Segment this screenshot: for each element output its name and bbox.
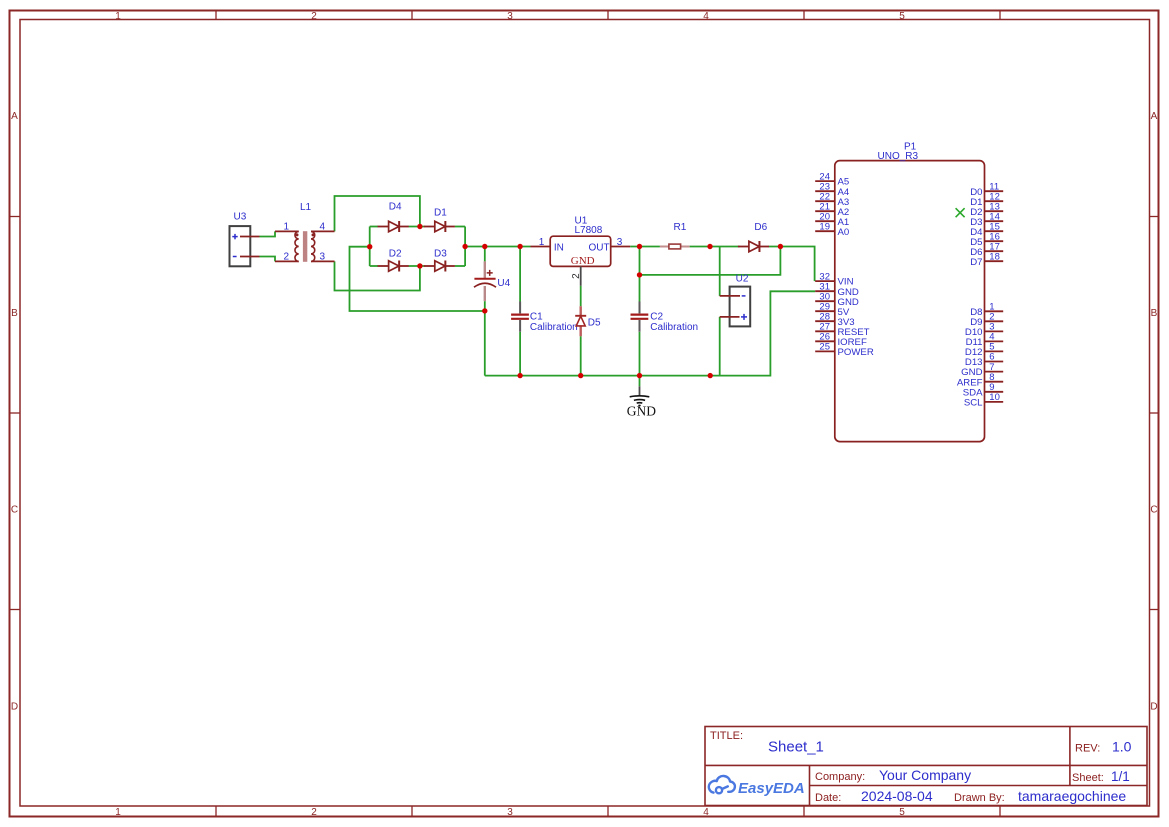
wire U1 OUT to R1 — [630, 246, 660, 248]
P1 pin 4 D11 — [985, 340, 1004, 342]
wire D2-D3 node bottom — [409, 265, 425, 267]
P1 pin 14 D3 — [985, 220, 1004, 222]
diode D5 — [580, 306, 582, 336]
svg-text:Drawn By:: Drawn By: — [954, 792, 1005, 804]
wire U3 plus to L1 pin1 — [260, 231, 276, 236]
P1 pin 1 D8 — [985, 310, 1004, 312]
diode D1 — [424, 226, 435, 228]
svg-text:2024-08-04: 2024-08-04 — [861, 788, 933, 804]
P1 pin 2 D9 — [985, 320, 1004, 322]
svg-text:C1: C1 — [530, 311, 543, 322]
svg-text:D3: D3 — [434, 248, 447, 259]
P1 pin 23 A4 — [815, 190, 835, 192]
wire U2 plus down to ground rail — [719, 317, 721, 376]
junction bridge DC plus — [462, 244, 467, 249]
svg-text:D7: D7 — [970, 257, 982, 268]
P1 pin 20 A1 — [815, 220, 835, 222]
wire D2 anode stub — [370, 265, 378, 267]
svg-text:1/1: 1/1 — [1111, 769, 1130, 784]
wire D6 cathode to P1 VIN — [769, 247, 815, 282]
wire C2 branch lower — [639, 332, 641, 376]
svg-text:U2: U2 — [736, 273, 749, 284]
svg-text:1.0: 1.0 — [1112, 739, 1132, 755]
P1 pin 8 AREF — [985, 381, 1004, 383]
wire ground symbol stub — [639, 376, 641, 387]
no-connect flag on pin D2 — [956, 208, 965, 217]
wire bridge left vertical — [369, 227, 371, 267]
svg-text:D5: D5 — [588, 317, 601, 328]
wire L1 pin4 to bridge AC top — [335, 196, 420, 231]
svg-text:A: A — [11, 111, 18, 122]
wire D3 cathode to right vertical — [455, 265, 465, 267]
header P1 UNO_R3 — [835, 161, 985, 442]
ruler column labels top — [115, 11, 905, 22]
capacitor C1 — [519, 302, 521, 332]
svg-text:B: B — [1151, 308, 1158, 319]
title block outline — [705, 727, 1147, 806]
transformer L1 — [275, 231, 335, 261]
P1 pin 9 SDA — [985, 391, 1004, 393]
wire top rail bridge to U1 IN — [465, 246, 530, 248]
svg-text:A: A — [1151, 111, 1158, 122]
svg-text:4: 4 — [703, 807, 709, 818]
svg-text:POWER: POWER — [838, 347, 874, 358]
wire L1 pin3 to bridge AC bottom — [335, 261, 420, 290]
svg-text:C2: C2 — [650, 311, 663, 322]
svg-text:D4: D4 — [389, 201, 402, 212]
regulator U1 L7808 — [550, 236, 611, 266]
diode D3 — [424, 265, 435, 267]
wire D6 node feedback to C2 top — [640, 247, 781, 275]
svg-text:Company:: Company: — [815, 771, 865, 783]
junction C1 ground rail — [517, 373, 522, 378]
P1 pin 3 D10 — [985, 330, 1004, 332]
svg-text:18: 18 — [989, 251, 1000, 262]
P1 pin 15 D4 — [985, 230, 1004, 232]
svg-text:Calibration: Calibration — [530, 322, 578, 333]
wire U4 top stub — [484, 247, 486, 262]
svg-text:1: 1 — [284, 222, 290, 233]
svg-text:EasyEDA: EasyEDA — [738, 780, 805, 797]
svg-text:1: 1 — [539, 237, 545, 248]
wire bridge DC- to U4 bottom node — [350, 247, 485, 311]
junction R1 right — [707, 244, 712, 249]
P1 pin 5 D12 — [985, 350, 1004, 352]
svg-text:5: 5 — [899, 807, 905, 818]
EasyEDA logo — [709, 776, 735, 793]
junction D5 ground rail — [578, 373, 583, 378]
svg-text:19: 19 — [819, 221, 830, 232]
svg-text:2: 2 — [284, 252, 290, 263]
svg-text:Calibration: Calibration — [650, 322, 698, 333]
svg-text:U3: U3 — [234, 212, 247, 223]
junction bridge AC top — [417, 224, 422, 229]
resistor R1 — [660, 246, 690, 248]
diode D6 — [738, 246, 749, 248]
P1 pin 22 A3 — [815, 200, 835, 202]
junction U1 OUT node — [637, 244, 642, 249]
svg-text:C: C — [1150, 504, 1157, 515]
P1 pin 13 D2 — [985, 210, 1004, 212]
P1 pin 17 D6 — [985, 250, 1004, 252]
wire D1 cathode to right vertical — [455, 226, 465, 228]
title block values — [768, 739, 1132, 805]
junction D6 cathode node — [778, 244, 783, 249]
wire U3 minus to L1 pin2 — [260, 257, 276, 262]
svg-text:1: 1 — [115, 807, 121, 818]
connector U3 — [230, 226, 251, 266]
P1 pin 16 D5 — [985, 240, 1004, 242]
junction C1 top — [517, 244, 522, 249]
ruler row labels right — [1150, 111, 1157, 712]
svg-text:4: 4 — [320, 222, 326, 233]
capacitor U4 electrolytic — [484, 261, 486, 301]
wire U1 pin2 to D5 — [580, 286, 582, 307]
wire C2 branch upper — [639, 247, 641, 302]
svg-text:2: 2 — [571, 273, 582, 279]
P1 pin 25 POWER — [815, 350, 835, 352]
svg-text:Your Company: Your Company — [879, 767, 971, 783]
wire C1 branch lower — [519, 332, 521, 376]
capacitor C2 — [639, 302, 641, 332]
svg-text:2: 2 — [311, 11, 317, 22]
wire D4 anode stub — [370, 226, 378, 228]
ruler row labels left — [11, 111, 18, 712]
svg-text:3: 3 — [617, 237, 623, 248]
junction U4 bottom — [482, 308, 487, 313]
P1 pin 30 GND — [815, 300, 835, 302]
svg-text:D2: D2 — [389, 248, 402, 259]
P1 pin 18 D7 — [985, 260, 1004, 262]
svg-text:1: 1 — [115, 11, 121, 22]
diode D2 — [378, 265, 389, 267]
svg-text:3: 3 — [507, 807, 513, 818]
junction bridge AC bottom — [417, 263, 422, 268]
svg-text:SCL: SCL — [964, 398, 983, 409]
svg-text:D: D — [1150, 701, 1157, 712]
wire U4 bottom to ground rail — [484, 301, 486, 376]
svg-text:D: D — [11, 701, 18, 712]
wire ground rail to P1 GND pin31 — [485, 291, 815, 375]
junction C2 feedback — [637, 272, 642, 277]
svg-text:R1: R1 — [674, 222, 687, 233]
svg-text:Sheet:: Sheet: — [1072, 772, 1104, 784]
P1 pin 7 GND — [985, 371, 1004, 373]
svg-text:D1: D1 — [434, 207, 447, 218]
P1 pin 31 GND — [815, 290, 835, 292]
svg-text:D6: D6 — [754, 222, 767, 233]
P1 pin 26 IOREF — [815, 340, 835, 342]
title block labels — [710, 730, 1104, 804]
junction bridge DC minus — [367, 244, 372, 249]
P1 pin 11 D0 — [985, 190, 1004, 192]
svg-text:4: 4 — [703, 11, 709, 22]
svg-text:GND: GND — [571, 255, 595, 267]
svg-text:Sheet_1: Sheet_1 — [768, 739, 824, 756]
svg-text:tamaraegochinee: tamaraegochinee — [1018, 788, 1126, 804]
P1 pin 12 D1 — [985, 200, 1004, 202]
svg-text:Date:: Date: — [815, 792, 841, 804]
junction U4 top — [482, 244, 487, 249]
ground symbol GND — [639, 386, 641, 396]
wire bridge right vertical — [464, 227, 466, 267]
svg-text:TITLE:: TITLE: — [710, 730, 743, 742]
svg-text:L7808: L7808 — [575, 225, 603, 236]
wire D5 anode to ground rail — [580, 336, 582, 375]
P1 pin 21 A2 — [815, 210, 835, 212]
svg-text:UNO_R3: UNO_R3 — [878, 151, 919, 162]
P1 pin 6 D13 — [985, 361, 1004, 363]
svg-text:OUT: OUT — [589, 242, 610, 253]
diode D4 — [378, 226, 389, 228]
svg-text:2: 2 — [311, 807, 317, 818]
P1 pin 28 3V3 — [815, 320, 835, 322]
svg-text:L1: L1 — [300, 202, 312, 213]
svg-text:GND: GND — [627, 404, 656, 419]
wire R1 to D6 — [690, 246, 740, 248]
P1 pin 27 RESET — [815, 330, 835, 332]
P1 pin 10 SCL — [985, 401, 1004, 403]
svg-text:A0: A0 — [838, 227, 850, 238]
P1 pin 19 A0 — [815, 230, 835, 232]
junction GND rail — [637, 373, 642, 378]
wire D4-D1 node top — [409, 226, 425, 228]
svg-text:B: B — [11, 308, 18, 319]
svg-text:25: 25 — [819, 342, 830, 353]
svg-text:IN: IN — [554, 242, 564, 253]
wire C1 branch upper — [519, 247, 521, 302]
svg-text:10: 10 — [989, 392, 1000, 403]
svg-text:5: 5 — [899, 11, 905, 22]
svg-text:U4: U4 — [497, 278, 510, 289]
P1 pin 32 VIN — [815, 280, 835, 282]
junction U2 ground rail — [708, 373, 713, 378]
svg-text:3: 3 — [507, 11, 513, 22]
svg-text:C: C — [11, 504, 18, 515]
wire U2 minus up to main line — [719, 247, 721, 296]
P1 pin 24 A5 — [815, 180, 835, 182]
ruler column labels bottom — [115, 807, 905, 818]
P1 pin 29 5V — [815, 310, 835, 312]
battery U2 — [730, 287, 751, 327]
svg-text:3: 3 — [320, 252, 326, 263]
svg-text:REV:: REV: — [1075, 743, 1100, 755]
